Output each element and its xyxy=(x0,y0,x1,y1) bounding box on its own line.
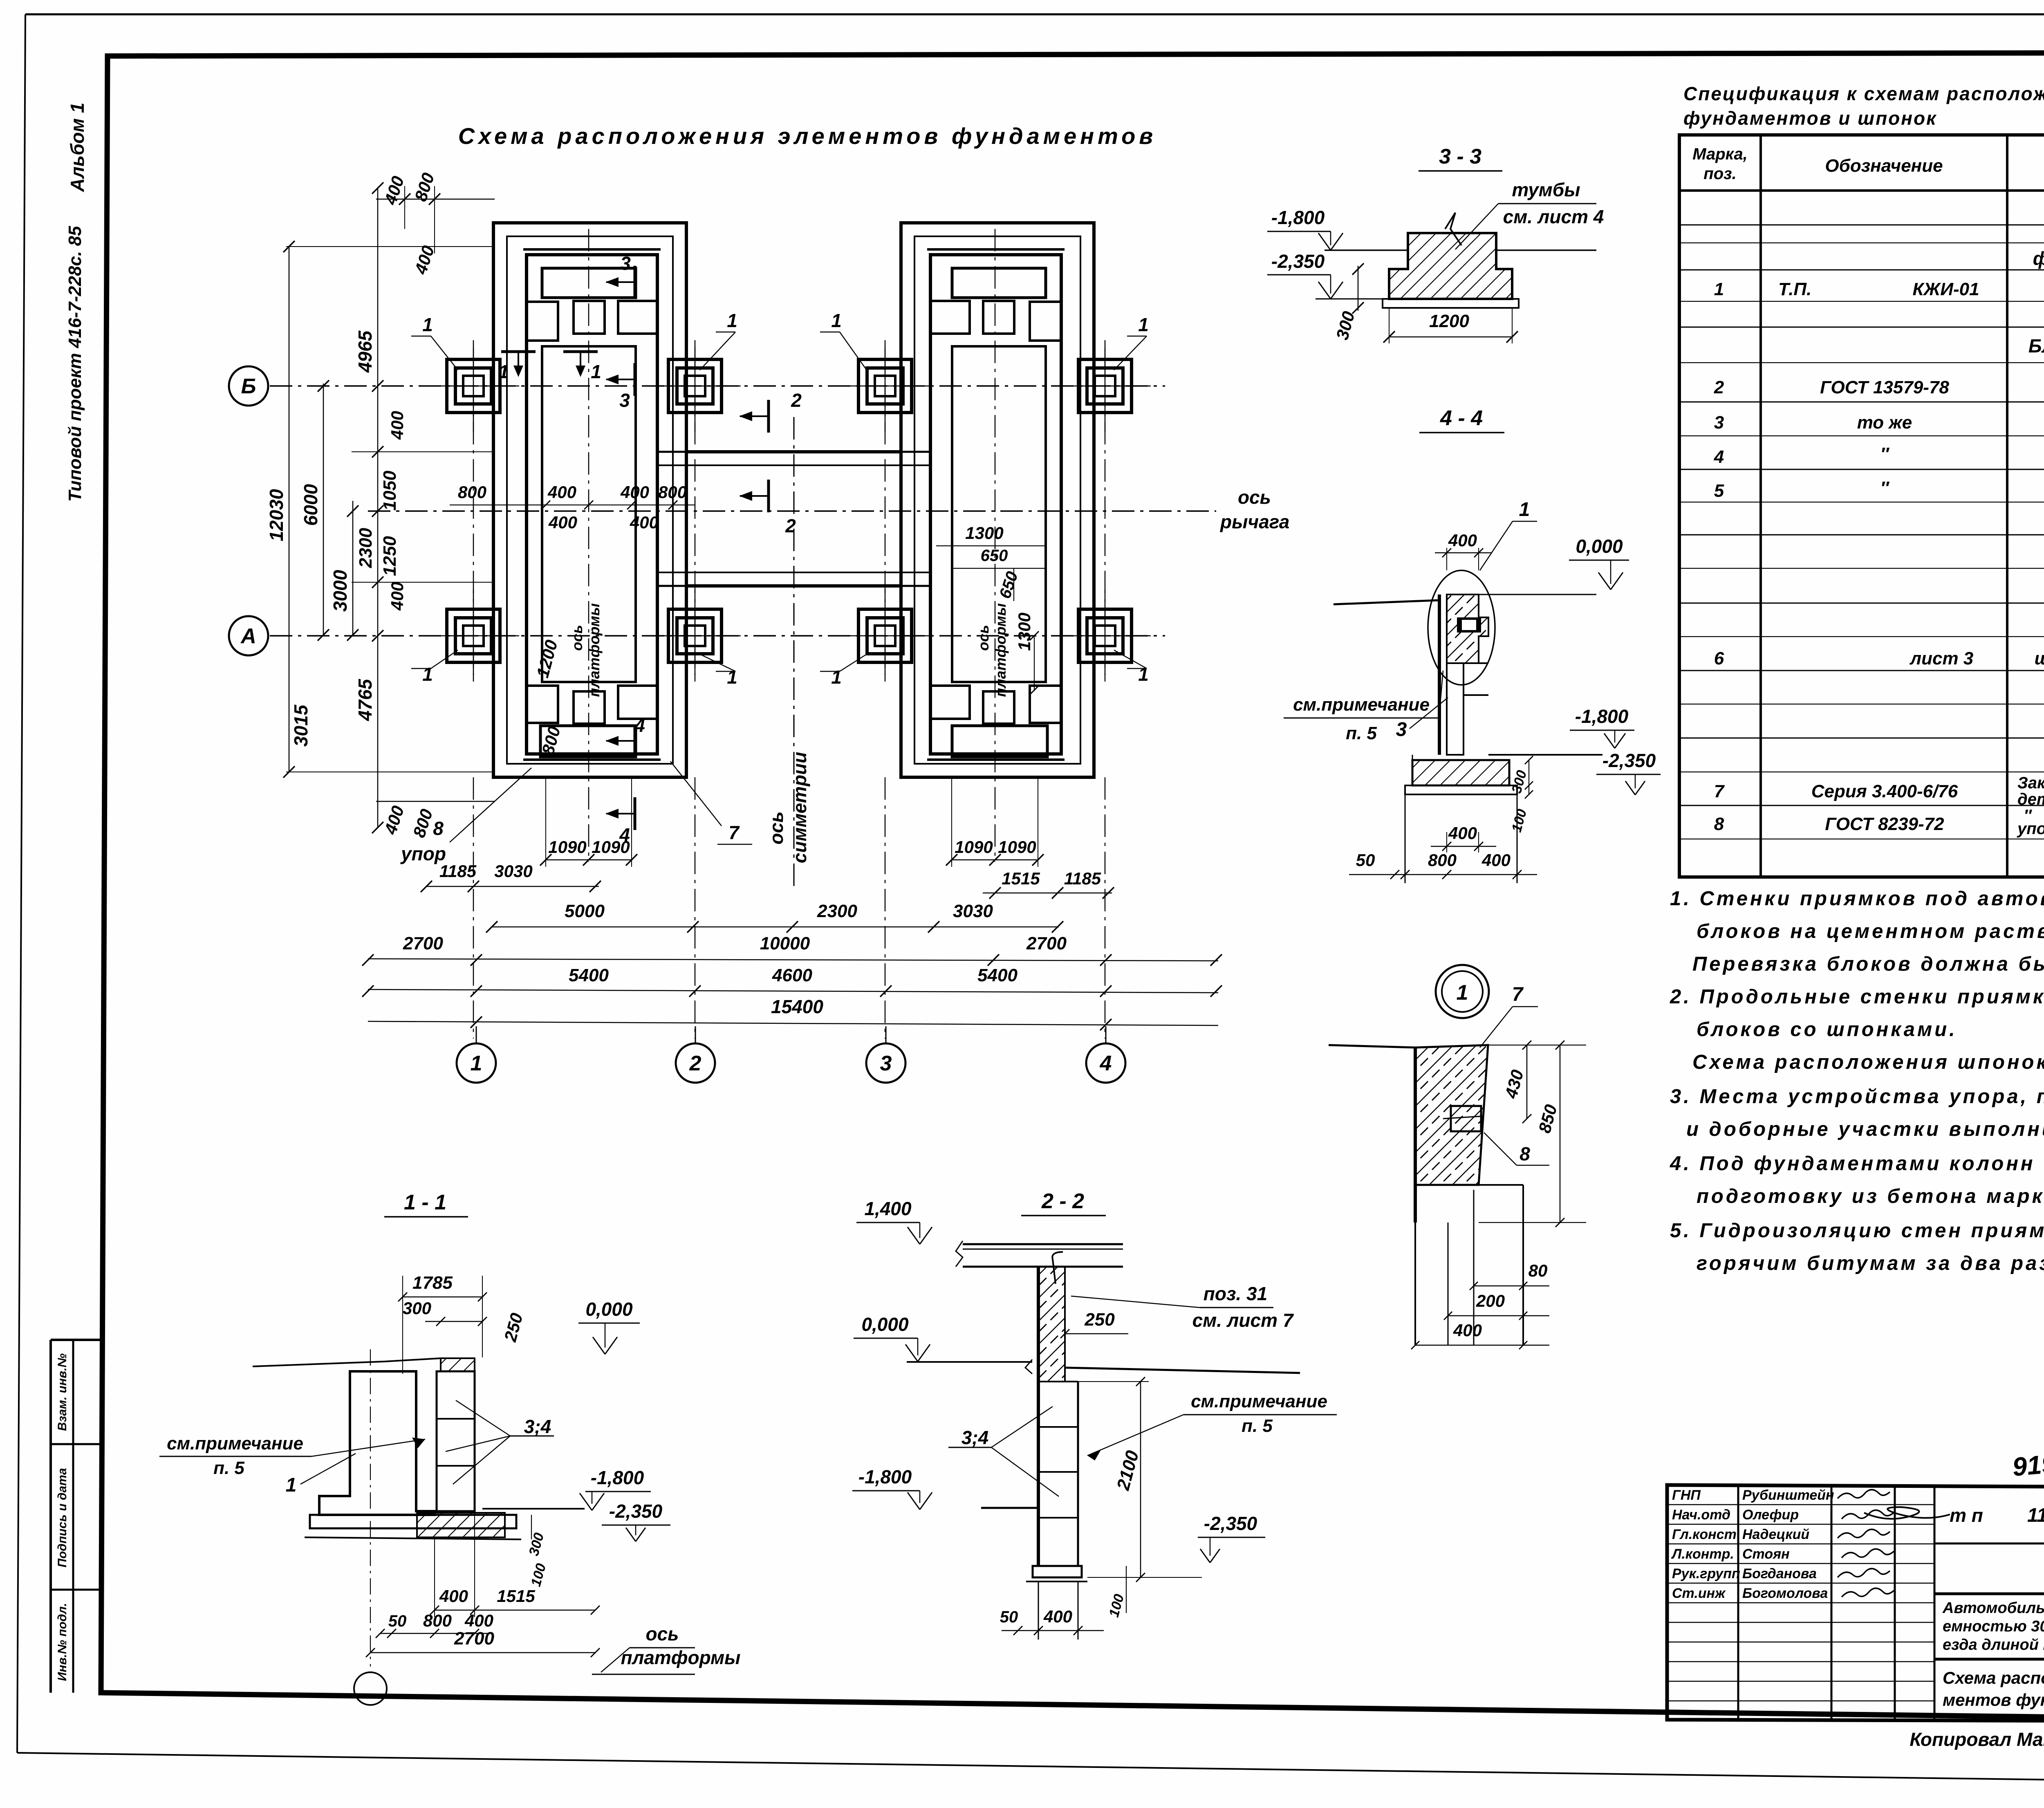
bottom-left rotated dims 400 800 xyxy=(376,801,495,840)
svg-text:Перевязка блоков должна быт: Перевязка блоков должна быть не менее 30… xyxy=(1692,953,2044,975)
svg-text:Схема расположения эле-: Схема расположения эле- xyxy=(1943,1668,2044,1687)
section 4-4 dims 300 100 rotated xyxy=(1509,756,1533,834)
detail 1 bottom dims 80 200 400 xyxy=(1411,1261,1549,1349)
svg-text:250: 250 xyxy=(1084,1310,1115,1330)
spec table row 7 xyxy=(1714,774,2044,808)
svg-text:4965: 4965 xyxy=(354,330,376,373)
svg-text:ось: ось xyxy=(975,625,992,651)
svg-text:2: 2 xyxy=(689,1052,702,1075)
svg-text:1: 1 xyxy=(471,1052,482,1075)
section 1-1 ground line xyxy=(253,1358,441,1366)
svg-text:1: 1 xyxy=(1714,279,1724,299)
svg-text:2 - 2: 2 - 2 xyxy=(1041,1189,1084,1213)
svg-text:КЖИ-01: КЖИ-01 xyxy=(1912,279,1979,299)
копировал макарчук xyxy=(1910,1729,2044,1750)
section marker 2-2 bottom xyxy=(739,480,796,536)
section 4-4 label 1 with leader xyxy=(1480,499,1537,570)
footing at axis x=1700 y=1555 xyxy=(649,590,741,682)
bottom dims 1515 1185 (right) xyxy=(983,869,1114,899)
svg-text:ГНП: ГНП xyxy=(1672,1487,1701,1503)
svg-text:400: 400 xyxy=(1448,531,1477,550)
svg-text:2700: 2700 xyxy=(454,1629,494,1649)
svg-text:12030: 12030 xyxy=(266,489,287,541)
section marker 1-1 (left pair) xyxy=(498,352,536,382)
svg-text:5400: 5400 xyxy=(569,965,609,985)
svg-text:0,000: 0,000 xyxy=(861,1314,909,1335)
section 1-1 bottom dims 400 1515 xyxy=(430,1511,600,1617)
detail 1 circle mark xyxy=(1436,965,1489,1018)
svg-text:6000: 6000 xyxy=(300,484,321,526)
bottom dims 1185 3030 (left) xyxy=(421,861,601,892)
section 1-1 axis circle xyxy=(354,1672,387,1705)
svg-text:п. 5: п. 5 xyxy=(213,1458,244,1478)
section 2-2 ground lines xyxy=(907,1359,1300,1374)
section 3-3 level -1,800 xyxy=(1267,207,1343,250)
section marker 4-4 bottom xyxy=(605,797,635,846)
svg-text:подготовку из бетона марки: подготовку из бетона марки 50 толщиной 1… xyxy=(1697,1185,2044,1207)
spec table row 3 xyxy=(1714,413,2044,433)
svg-text:2: 2 xyxy=(785,515,796,536)
svg-text:А: А xyxy=(240,624,256,648)
svg-text:Богданова: Богданова xyxy=(1742,1566,1817,1581)
section 4-4 label см.примечание п.5 xyxy=(1284,671,1443,743)
svg-text:10000: 10000 xyxy=(760,933,810,953)
svg-text:0,000: 0,000 xyxy=(1576,536,1623,557)
svg-text:8: 8 xyxy=(433,818,444,839)
svg-text:то же: то же xyxy=(1857,413,1912,433)
svg-text:4600: 4600 xyxy=(772,965,812,985)
svg-text:4 - 4: 4 - 4 xyxy=(1440,406,1483,430)
svg-text:″: ″ xyxy=(1880,444,1889,464)
svg-text:3: 3 xyxy=(619,390,630,411)
svg-text:Спецификация к схемам распо: Спецификация к схемам расположения элеме… xyxy=(1683,83,2044,104)
svg-text:симметрии: симметрии xyxy=(789,752,810,864)
svg-text:Олефир: Олефир xyxy=(1742,1507,1799,1523)
section 2-2 footing slab xyxy=(1026,1566,1087,1640)
svg-text:1515: 1515 xyxy=(497,1586,535,1606)
svg-text:1090: 1090 xyxy=(955,837,993,857)
plan: left pit wall xyxy=(523,249,661,760)
svg-text:1: 1 xyxy=(831,666,842,688)
svg-text:3030: 3030 xyxy=(953,901,993,921)
svg-text:1: 1 xyxy=(498,361,509,382)
bottom dims 1090 1090 (right) xyxy=(946,777,1044,867)
plan: middle bar walls xyxy=(673,452,914,586)
svg-text:Надецкий: Надецкий xyxy=(1742,1527,1809,1542)
left vertical dim chain 12030 xyxy=(266,241,295,778)
svg-text:лист 3: лист 3 xyxy=(1910,648,1974,668)
svg-text:и доборные участки выполнит: и доборные участки выполнить из бетона м… xyxy=(1686,1118,2044,1140)
svg-text:Копировал Макарчук: Копировал Макарчук xyxy=(1910,1729,2044,1750)
section 4-4 dim 400 top xyxy=(1435,531,1492,570)
svg-text:3;4: 3;4 xyxy=(524,1416,551,1437)
svg-text:5. Гидроизоляцию стен приямк: 5. Гидроизоляцию стен приямка выполнить … xyxy=(1670,1220,2044,1242)
plan: left pit interior blocks xyxy=(527,268,657,757)
svg-text:2300: 2300 xyxy=(817,901,857,921)
svg-text:5: 5 xyxy=(1714,481,1724,501)
svg-text:платформы: платформы xyxy=(992,603,1009,697)
svg-text:Схема расположения шпонок д: Схема расположения шпонок дана на листе … xyxy=(1692,1051,2044,1073)
svg-text:400: 400 xyxy=(439,1586,468,1606)
svg-text:1090: 1090 xyxy=(548,837,586,857)
svg-text:платформы: платформы xyxy=(621,1647,741,1668)
section 2-2 label поз.31 см.лист 7 xyxy=(1071,1283,1294,1331)
svg-text:Рубинштейн: Рубинштейн xyxy=(1742,1487,1834,1503)
section 4-4 footing slab hatched xyxy=(1405,755,1517,883)
svg-text:1185: 1185 xyxy=(439,861,477,881)
svg-text:шпонка: шпонка xyxy=(2035,648,2044,668)
svg-text:2: 2 xyxy=(791,390,802,411)
svg-text:емностью 30 тонн на два про-: емностью 30 тонн на два про- xyxy=(1943,1618,2044,1635)
footing at axis x=2703 y=1555 xyxy=(1059,590,1151,682)
left margin label: Альбом 1 xyxy=(67,103,88,192)
svg-text:ось: ось xyxy=(1238,487,1271,508)
svg-text:Б: Б xyxy=(241,375,256,398)
svg-text:1: 1 xyxy=(727,310,737,331)
labels ось платформы (rotated, left) xyxy=(569,603,603,697)
svg-text:1250: 1250 xyxy=(380,536,400,576)
section 1-1 label 3;4 with leaders xyxy=(446,1400,554,1484)
section 2-2 dim 250 xyxy=(1060,1310,1128,1338)
section 1-1 title xyxy=(384,1191,468,1217)
section 3-3 title xyxy=(1419,145,1502,171)
svg-text:116-7-228с. 85: 116-7-228с. 85 xyxy=(2027,1505,2044,1526)
detail 1 label 8 with leader xyxy=(1484,1133,1549,1165)
svg-text:3;4: 3;4 xyxy=(961,1427,988,1448)
svg-text:рычага: рычага xyxy=(1219,511,1289,532)
plan: right pit interior blocks xyxy=(930,268,1061,757)
svg-text:ГОСТ 13579-78: ГОСТ 13579-78 xyxy=(1820,377,1949,397)
section 1-1 level -1,800 xyxy=(482,1467,651,1510)
column axes vertical 1-4 xyxy=(473,348,1105,1039)
plan: left platform outer wall xyxy=(493,223,686,777)
title block right part grid xyxy=(1934,1543,2044,1722)
svg-text:3: 3 xyxy=(880,1052,892,1075)
section marker 1-1 (right of pair) xyxy=(563,352,601,382)
svg-text:Автомобильные весы грузоподъ-: Автомобильные весы грузоподъ- xyxy=(1942,1599,2044,1617)
section 3-3 hatched foundation block xyxy=(1325,213,1596,308)
section 4-4 label 3 with leader xyxy=(1396,698,1448,740)
spec table header texts xyxy=(1692,145,2044,183)
svg-text:1: 1 xyxy=(591,361,601,382)
left margin stamp boxes xyxy=(51,1340,101,1693)
svg-text:4. Под фундаментами колонн: 4. Под фундаментами колонн и стен приямк… xyxy=(1670,1153,2044,1175)
left horizontal extension lines xyxy=(286,247,493,772)
svg-text:-2,350: -2,350 xyxy=(1602,750,1656,771)
platform centre axes vertical xyxy=(589,229,995,862)
svg-text:7: 7 xyxy=(1512,984,1524,1005)
svg-text:3 - 3: 3 - 3 xyxy=(1439,145,1481,168)
spec table row 4 xyxy=(1714,444,2044,467)
svg-text:Серия 3.400-6/76: Серия 3.400-6/76 xyxy=(1811,781,1958,801)
svg-text:Рук.групп: Рук.групп xyxy=(1672,1566,1740,1581)
axis line Б xyxy=(270,385,1165,387)
svg-text:горячим битумам за два раз: горячим битумам за два раза. xyxy=(1697,1252,2044,1274)
axis circle 1 xyxy=(457,1026,496,1083)
svg-text:400: 400 xyxy=(1448,823,1477,843)
svg-text:4: 4 xyxy=(1100,1052,1112,1075)
svg-text:800: 800 xyxy=(423,1611,452,1630)
svg-text:Ст.инж: Ст.инж xyxy=(1672,1586,1726,1601)
svg-text:п. 5: п. 5 xyxy=(1242,1416,1273,1436)
section 4-4 title xyxy=(1419,406,1504,433)
svg-text:50: 50 xyxy=(1356,850,1375,870)
section 2-2 bottom dims 100 50 400 xyxy=(1000,1566,1127,1635)
svg-text:3: 3 xyxy=(620,253,631,274)
plan: right pit wall xyxy=(927,249,1065,760)
spec table grid xyxy=(1679,135,2044,877)
svg-text:400: 400 xyxy=(548,513,577,532)
spec table row 6 xyxy=(1714,648,2044,668)
svg-text:Обозначение: Обозначение xyxy=(1825,156,1943,176)
left margin label: Типовой проект 416-7-228с.85 xyxy=(65,226,85,502)
section marker 3-3 top xyxy=(605,253,635,298)
section 1-1 label 1 with leader xyxy=(262,1454,356,1498)
svg-text:1050: 1050 xyxy=(380,471,400,511)
svg-text:4765: 4765 xyxy=(354,678,376,721)
section 2-2 level 0,000 xyxy=(854,1314,930,1362)
labels ось платформы (rotated, right) xyxy=(975,603,1009,697)
left margin label: Взам. инв.№ xyxy=(56,1353,69,1431)
plan title xyxy=(458,123,1156,149)
section 2-2 label см.примечание п.5 xyxy=(1087,1391,1337,1460)
svg-text:1090: 1090 xyxy=(998,837,1036,857)
svg-text:Типовой проект 416-7-228с. 85: Типовой проект 416-7-228с. 85 xyxy=(65,226,85,502)
svg-text:400: 400 xyxy=(620,482,649,502)
spec table heading text xyxy=(1683,83,2044,129)
svg-text:Блоки бетонные: Блоки бетонные xyxy=(2028,335,2044,357)
title block signatures xyxy=(1838,1489,1950,1597)
title block left staff grid xyxy=(1667,1485,1934,1721)
svg-text:Альбом 1: Альбом 1 xyxy=(67,103,88,192)
svg-text:-1,800: -1,800 xyxy=(858,1466,912,1487)
svg-text:-1,800: -1,800 xyxy=(1575,706,1629,727)
svg-text:Подпись и дата: Подпись и дата xyxy=(56,1468,69,1567)
left vertical dims 2300 1250 1050 400 xyxy=(290,182,407,833)
svg-text:поз. 31: поз. 31 xyxy=(1204,1283,1267,1304)
svg-text:1: 1 xyxy=(422,664,433,685)
footing at axis x=1158 y=1555 xyxy=(428,590,519,682)
footing at axis x=1158 y=944 xyxy=(428,340,519,432)
footing at axis x=2165 y=944 xyxy=(839,340,931,432)
svg-text:1. Стенки приямков под авто: 1. Стенки приямков под автовесы из бетон… xyxy=(1670,888,2044,910)
title block: project description xyxy=(1942,1599,2044,1653)
detail 1 hatched wall xyxy=(1329,1045,1488,1223)
bottom dims 1090 1090 (left) xyxy=(540,777,637,867)
section 4-4 level -1,800 xyxy=(1488,706,1634,755)
section 1-1 axis line xyxy=(370,1349,371,1667)
svg-text:1515: 1515 xyxy=(1002,869,1040,888)
detail 1 wall below xyxy=(1415,1185,1523,1345)
svg-text:1: 1 xyxy=(1519,499,1530,520)
svg-text:1: 1 xyxy=(286,1474,297,1496)
svg-text:3015: 3015 xyxy=(290,704,312,747)
svg-text:езда длиной платформы 12 м: езда длиной платформы 12 м xyxy=(1943,1636,2044,1653)
svg-text:Л.контр.: Л.контр. xyxy=(1671,1546,1734,1562)
svg-text:1 - 1: 1 - 1 xyxy=(404,1191,446,1214)
svg-text:Инв.№ подл.: Инв.№ подл. xyxy=(56,1603,69,1681)
label 7 with leader xyxy=(670,761,752,844)
svg-text:400: 400 xyxy=(1481,850,1511,870)
svg-text:-2,350: -2,350 xyxy=(1271,251,1325,272)
section 1-1 bottom dims 50 800 400 xyxy=(376,1611,493,1638)
axis circle 2 xyxy=(676,1026,715,1083)
section 4-4 wall with hatch xyxy=(1334,594,1488,755)
svg-text:400: 400 xyxy=(1043,1607,1072,1626)
svg-text:2700: 2700 xyxy=(403,933,443,953)
svg-text:1: 1 xyxy=(1138,314,1149,335)
axis circle Б xyxy=(229,366,268,406)
svg-text:-2,350: -2,350 xyxy=(1204,1513,1257,1534)
svg-text:400: 400 xyxy=(1453,1321,1482,1340)
svg-text:-2,350: -2,350 xyxy=(609,1501,663,1522)
bottom dims 5000 2300 3030 row xyxy=(486,901,1063,933)
svg-text:800: 800 xyxy=(458,482,486,502)
section 3-3 label тумбы см.лист 4 xyxy=(1455,179,1604,249)
section 1-1 dims 1785 300 250 xyxy=(398,1273,527,1374)
svg-text:Т.П.: Т.П. xyxy=(1778,279,1811,299)
section 2-2 level -1,800 xyxy=(852,1466,1038,1510)
label 8 упор with leader xyxy=(400,768,531,864)
top-left rotated dims 400 800 400 xyxy=(376,170,495,277)
svg-text:Богомолова: Богомолова xyxy=(1742,1586,1828,1601)
leader labels 1 to footings (row А) xyxy=(411,650,458,685)
svg-text:2300: 2300 xyxy=(356,528,376,568)
svg-text:400: 400 xyxy=(464,1611,493,1630)
svg-text:Закладная: Закладная xyxy=(2017,774,2044,792)
left vertical dim 6000 xyxy=(300,380,329,641)
svg-text:0,000: 0,000 xyxy=(585,1299,633,1320)
svg-text:″: ″ xyxy=(1880,478,1889,498)
bottom dims 2700 10000 2700 row xyxy=(362,933,1222,966)
section 2-2 dim 2100 rotated xyxy=(1078,1377,1149,1582)
svg-text:50: 50 xyxy=(388,1612,407,1630)
svg-text:Схема расположения элементов: Схема расположения элементов фундаментов xyxy=(458,123,1156,149)
number 9191/1 xyxy=(2011,1444,2044,1482)
detail 1 dims 430 850 xyxy=(1479,1041,1586,1227)
spec table row 1 xyxy=(1714,279,2044,299)
svg-text:7: 7 xyxy=(1714,781,1725,801)
svg-text:650: 650 xyxy=(981,547,1008,565)
spec table row 8 xyxy=(1714,807,2044,838)
svg-text:платформы: платформы xyxy=(586,603,603,697)
section 3-3 dim 300 (vertical) xyxy=(1332,263,1364,342)
title block staff texts xyxy=(1671,1487,1834,1601)
svg-text:1: 1 xyxy=(422,314,433,335)
svg-text:упор: упор xyxy=(2017,820,2044,838)
svg-text:1300: 1300 xyxy=(965,523,1003,543)
bottom dim 15400 row xyxy=(368,996,1218,1030)
section 2-2 title xyxy=(1021,1189,1106,1216)
svg-text:ГОСТ 8239-72: ГОСТ 8239-72 xyxy=(1825,814,1944,834)
mid plan dims 800 400 400 800 row xyxy=(450,482,695,532)
svg-text:ось: ось xyxy=(766,812,787,845)
footing at axis x=2703 y=944 xyxy=(1059,340,1151,432)
svg-text:80: 80 xyxy=(1529,1261,1548,1280)
rotated dim 1200 (left pit) xyxy=(533,638,561,680)
section 3-3 level -2,350 xyxy=(1267,251,1389,299)
svg-text:-1,800: -1,800 xyxy=(1271,207,1325,228)
svg-text:8: 8 xyxy=(1714,814,1724,834)
svg-text:2: 2 xyxy=(1714,377,1724,397)
svg-text:1,400: 1,400 xyxy=(864,1198,912,1219)
svg-text:3000: 3000 xyxy=(329,570,351,612)
svg-text:300: 300 xyxy=(403,1299,431,1318)
svg-text:3: 3 xyxy=(1396,719,1407,740)
axis circle 4 xyxy=(1086,1026,1125,1083)
svg-text:400: 400 xyxy=(388,411,407,440)
svg-text:5400: 5400 xyxy=(977,965,1018,985)
svg-text:блоков на цементном раствор: блоков на цементном растворе марки 50. xyxy=(1697,920,2044,942)
spec table row: фундаменты xyxy=(2033,248,2044,269)
section 4-4 level -2,350 xyxy=(1596,750,1661,795)
svg-text:Стоян: Стоян xyxy=(1742,1546,1790,1562)
svg-text:блоков со шпонками.: блоков со шпонками. xyxy=(1697,1018,1957,1041)
section 1-1 bottom dim 2700 xyxy=(366,1629,600,1657)
svg-text:3030: 3030 xyxy=(494,861,532,881)
axis circle А xyxy=(229,616,268,655)
plan: right platform outer wall xyxy=(901,223,1094,777)
svg-text:3: 3 xyxy=(1714,413,1724,433)
svg-text:4: 4 xyxy=(619,824,630,846)
section 4-4 oval detail mark xyxy=(1428,570,1495,685)
svg-text:т п: т п xyxy=(1950,1505,1983,1526)
label ось рычага xyxy=(1219,487,1289,532)
svg-text:6: 6 xyxy=(1714,648,1724,668)
axis line ось рычага xyxy=(368,510,1216,512)
svg-text:Взам. инв.№: Взам. инв.№ xyxy=(56,1353,69,1431)
svg-text:Гл.конст: Гл.конст xyxy=(1672,1527,1737,1542)
axis circle 3 xyxy=(866,1026,905,1083)
section 4-4 level 0,000 xyxy=(1479,536,1629,594)
svg-text:4: 4 xyxy=(634,715,645,736)
svg-text:2. Продольные стенки приямко: 2. Продольные стенки приямков из бетонны… xyxy=(1670,986,2044,1008)
axis line А xyxy=(270,635,1165,637)
svg-text:400: 400 xyxy=(388,582,407,611)
left margin label: Инв.№ подл. xyxy=(56,1603,69,1681)
svg-text:ось: ось xyxy=(646,1623,679,1644)
section 1-1 dims 300 100 rotated xyxy=(526,1515,549,1588)
svg-text:800: 800 xyxy=(1428,850,1457,870)
left margin label: Подпись и дата xyxy=(56,1468,69,1567)
title block: sheet title xyxy=(1943,1668,2044,1709)
section 1-1 label см.примечание п.5 xyxy=(159,1433,425,1478)
section marker 4-4 top xyxy=(605,715,645,757)
section 2-2 hatched column (поз.31) xyxy=(1038,1267,1065,1382)
svg-text:поз.: поз. xyxy=(1703,165,1736,183)
svg-text:Марка,: Марка, xyxy=(1692,145,1748,163)
svg-text:1200: 1200 xyxy=(1429,311,1469,331)
section 4-4 bottom dims 400 / 50 800 400 xyxy=(1349,823,1537,879)
svg-text:1185: 1185 xyxy=(1064,869,1101,888)
middle bar wall junction segments xyxy=(657,452,930,586)
section 1-1 level -2,350 xyxy=(602,1501,670,1541)
svg-text:200: 200 xyxy=(1476,1291,1505,1310)
section 1-1 label ось платформы xyxy=(592,1623,740,1674)
svg-text:5000: 5000 xyxy=(565,901,605,921)
svg-text:ось: ось xyxy=(569,625,585,651)
section 2-2 level -2,350 xyxy=(1087,1513,1265,1577)
section marker 3-3 mid xyxy=(605,363,635,411)
footing at axis x=1700 y=944 xyxy=(649,340,741,432)
spec table row 2 xyxy=(1714,377,2044,397)
section 3-3 dim 1200 xyxy=(1383,308,1518,343)
svg-text:тумбы: тумбы xyxy=(1512,179,1580,200)
svg-text:-1,800: -1,800 xyxy=(591,1467,644,1488)
svg-text:деталь: деталь xyxy=(2017,790,2044,808)
section marker 2-2 top xyxy=(739,390,802,433)
svg-text:см.примечание: см.примечание xyxy=(1293,695,1430,715)
